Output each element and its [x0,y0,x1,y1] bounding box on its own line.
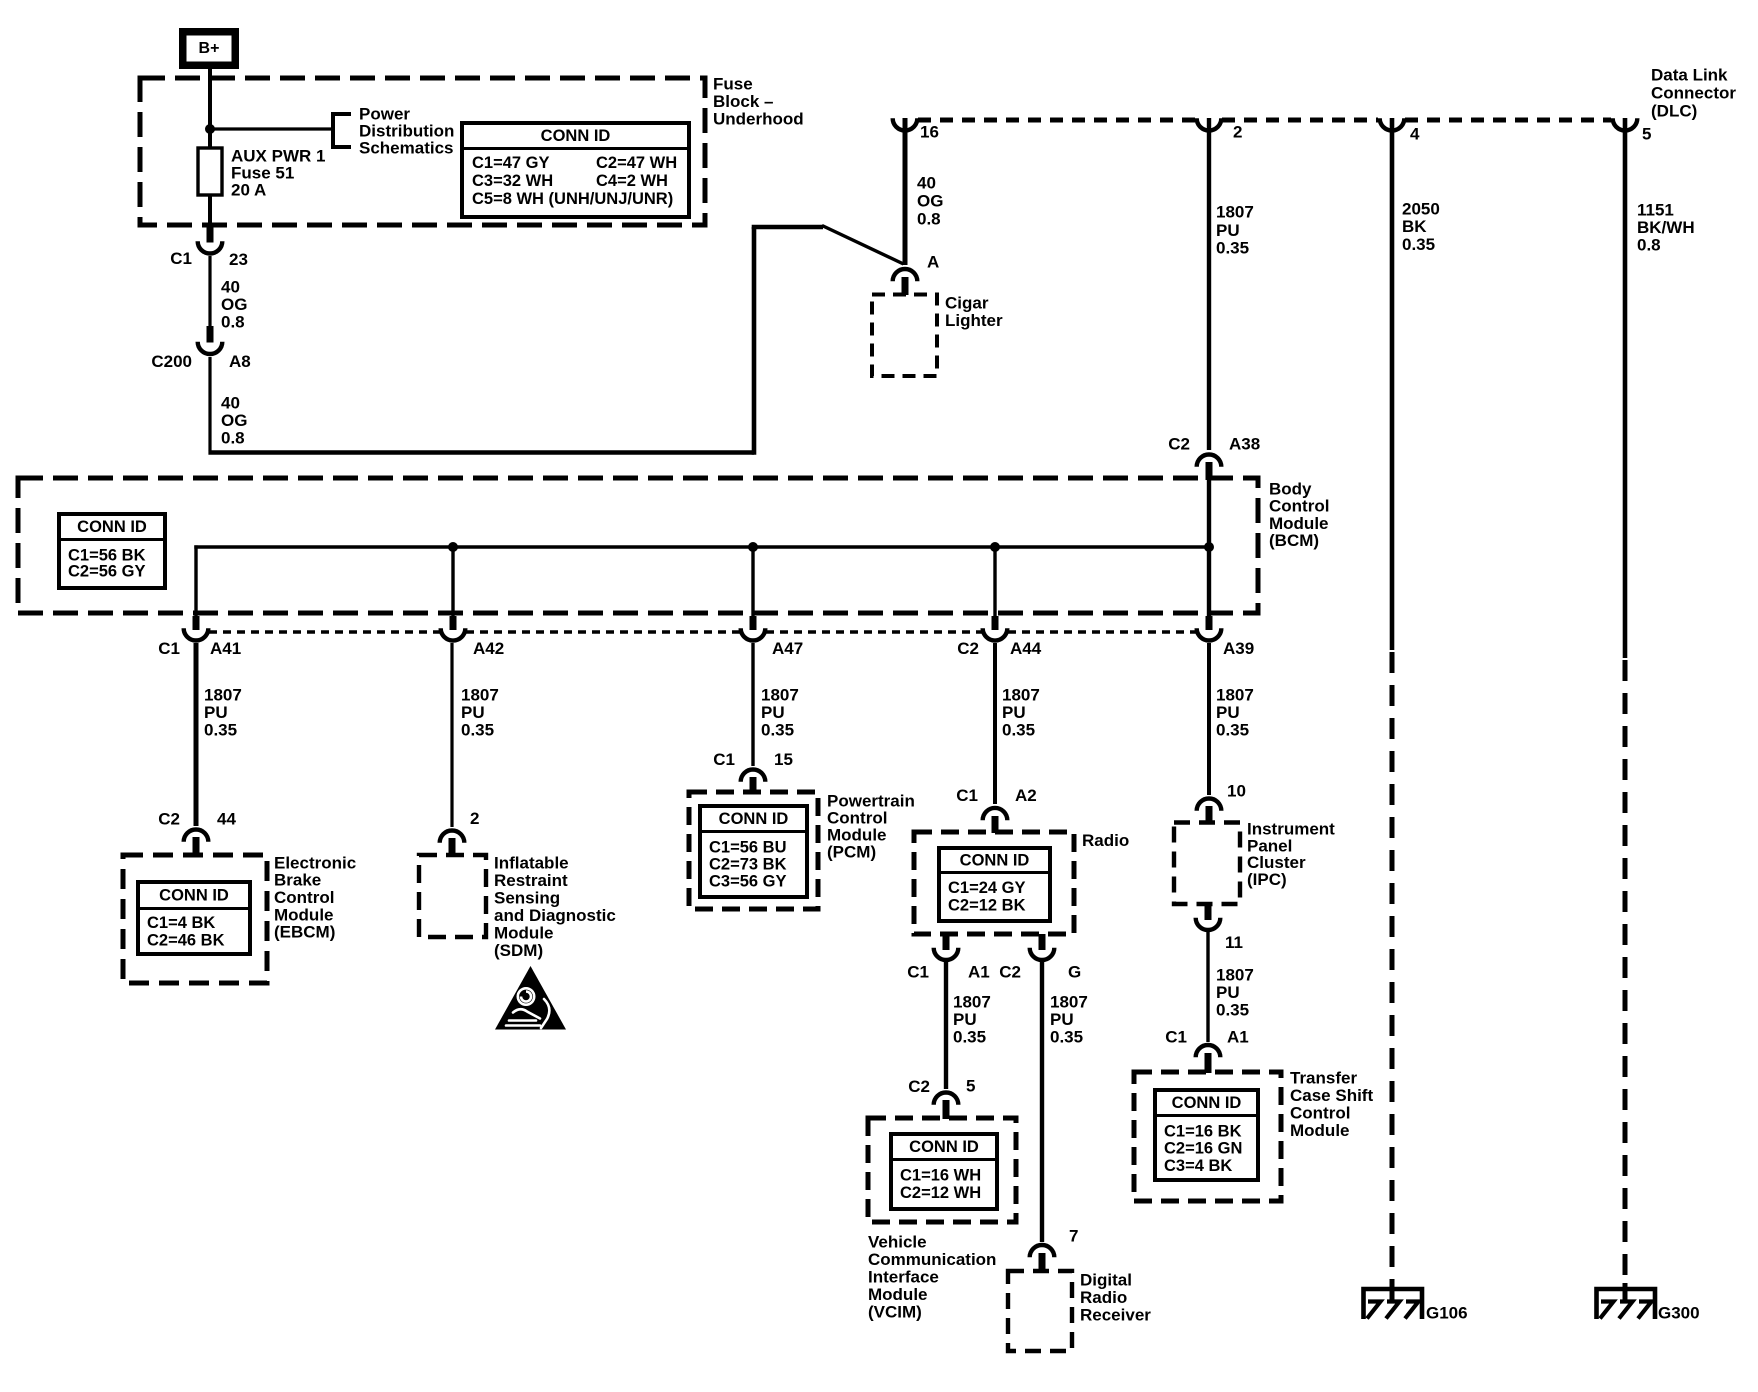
fuse AUX PWR 1 Fuse 51 20A [198,148,222,195]
svg-text:Cigar: Cigar [945,294,989,313]
svg-text:C4=2 WH: C4=2 WH [596,172,668,190]
wire radio A1 to VCIM [944,962,948,1089]
conn id table VCIM [891,1134,997,1209]
wire fuse to C1 [208,195,212,231]
svg-text:0.35: 0.35 [1050,1028,1083,1047]
conn id table EBCM [138,882,250,954]
svg-text:G106: G106 [1426,1304,1468,1323]
svg-text:Case Shift: Case Shift [1290,1086,1373,1105]
svg-text:C5=8 WH (UNH/UNJ/UNR): C5=8 WH (UNH/UNJ/UNR) [472,190,673,208]
svg-text:A47: A47 [772,639,803,658]
svg-text:(VCIM): (VCIM) [868,1303,922,1322]
junction dot A39 [1204,542,1214,552]
svg-text:A38: A38 [1229,435,1260,454]
svg-text:2: 2 [1233,123,1242,142]
svg-text:PU: PU [761,703,785,722]
connector C1 pin 23 [207,226,214,243]
wire C1 to C200 [208,256,211,330]
svg-text:C1=16 WH: C1=16 WH [900,1167,981,1185]
svg-text:PU: PU [1050,1010,1074,1029]
svg-text:0.35: 0.35 [1216,239,1249,258]
wire C200 down [208,357,211,451]
connector Radio C1 pin A2 [983,808,1008,820]
svg-text:A8: A8 [229,352,251,371]
power distribution reference bracket [331,112,335,149]
power symbol B+ [179,28,239,69]
conn id table BCM [59,514,165,588]
svg-text:Vehicle: Vehicle [868,1233,927,1252]
svg-text:A39: A39 [1223,639,1254,658]
svg-text:Connector: Connector [1651,84,1736,103]
svg-text:7: 7 [1069,1227,1078,1246]
svg-text:A1: A1 [1227,1028,1249,1047]
svg-text:Interface: Interface [868,1268,939,1287]
wire DLC2 to BCM A38 [1207,118,1211,450]
svg-text:0.8: 0.8 [221,313,245,332]
svg-text:PU: PU [1216,221,1240,240]
connector TCSCM C1 pin A1 [1196,1045,1221,1057]
svg-text:Schematics: Schematics [359,139,454,158]
svg-text:Control: Control [1290,1104,1350,1123]
connector DLC pin 16 [893,118,918,130]
inflatable restraint SDM dashed box [419,855,486,937]
svg-text:G: G [1068,963,1081,982]
svg-text:C2: C2 [999,963,1021,982]
SRS warning triangle [495,966,566,1030]
svg-text:0.35: 0.35 [1002,721,1035,740]
svg-text:1807: 1807 [461,686,499,705]
ground G300 [1623,1283,1628,1301]
svg-text:BK: BK [1402,217,1427,236]
svg-text:1807: 1807 [953,993,991,1012]
svg-text:(PCM): (PCM) [827,843,876,862]
BCM connector dotted line [209,630,441,634]
svg-text:A41: A41 [210,639,241,658]
svg-text:B+: B+ [199,40,220,57]
node junction dot [205,124,215,134]
svg-text:Module: Module [1290,1121,1350,1140]
svg-text:C1=16 BK: C1=16 BK [1164,1123,1242,1141]
body control module dashed box [18,478,1258,613]
svg-text:Control: Control [274,888,334,907]
ground G106 [1390,1283,1395,1301]
svg-text:C1=4 BK: C1=4 BK [147,914,215,932]
svg-text:C1: C1 [170,249,192,268]
svg-text:CONN ID: CONN ID [909,1138,979,1156]
svg-text:1807: 1807 [1050,993,1088,1012]
connector DLC pin 5 [1613,118,1638,130]
wire IPC to TCSCM [1206,932,1209,1042]
connector IPC pin 10 [1197,798,1222,810]
svg-text:Inflatable: Inflatable [494,854,569,873]
svg-text:C2: C2 [158,810,180,829]
svg-text:1807: 1807 [761,686,799,705]
svg-text:0.35: 0.35 [1216,721,1249,740]
svg-text:Control: Control [1269,497,1329,516]
svg-text:0.35: 0.35 [204,721,237,740]
svg-text:0.35: 0.35 [761,721,794,740]
svg-text:C2=16 GN: C2=16 GN [1164,1140,1242,1158]
svg-text:C3=32 WH: C3=32 WH [472,172,553,190]
connector BCM pin A39 [1206,616,1213,630]
wire A47 to PCM [751,643,754,766]
svg-text:Radio: Radio [1082,831,1129,850]
svg-text:C2=73 BK: C2=73 BK [709,856,787,874]
DLC dashed bus [918,118,1196,123]
svg-text:Transfer: Transfer [1290,1069,1357,1088]
connector cigar lighter pin A [893,269,918,281]
connector SDM pin 2 [440,831,465,843]
svg-text:20 A: 20 A [231,181,266,200]
svg-text:0.35: 0.35 [1402,235,1435,254]
conn id table fuse block [462,123,689,217]
connector DLC pin 4 [1380,118,1405,130]
svg-text:1807: 1807 [1002,686,1040,705]
svg-text:4: 4 [1410,125,1420,144]
svg-text:(DLC): (DLC) [1651,102,1697,121]
svg-text:2: 2 [470,809,479,828]
wire DLC5 solid [1623,118,1628,658]
wire B+ to fuse [208,69,212,149]
svg-text:Receiver: Receiver [1080,1306,1151,1325]
wire A39 to IPC [1207,643,1211,795]
svg-text:PU: PU [1002,703,1026,722]
svg-text:Block –: Block – [713,92,773,111]
svg-text:(BCM): (BCM) [1269,531,1319,550]
svg-text:OG: OG [221,295,247,314]
connector C200 pin A8 [207,326,214,343]
svg-text:0.35: 0.35 [953,1028,986,1047]
svg-text:BK/WH: BK/WH [1637,218,1695,237]
electronic brake control module dashed box [123,855,267,983]
svg-text:A2: A2 [1015,786,1037,805]
svg-text:PU: PU [1216,983,1240,1002]
svg-text:1807: 1807 [204,686,242,705]
svg-text:Sensing: Sensing [494,889,560,908]
svg-text:C3=4 BK: C3=4 BK [1164,1157,1232,1175]
svg-text:23: 23 [229,250,248,269]
svg-text:5: 5 [966,1077,975,1096]
wire DLC16 to cigar lighter [903,118,908,265]
radio dashed box [914,832,1074,934]
junction dot A44 [990,542,1000,552]
wire BCM to A44 [993,547,996,630]
wire DLC4 dashed to G106 [1390,652,1395,1287]
connector BCM pin A44 [992,616,999,630]
svg-text:C1: C1 [956,786,978,805]
connector EBCM C2 pin 44 [184,830,209,842]
fuse block underhood dashed box [140,78,705,225]
svg-text:and Diagnostic: and Diagnostic [494,906,616,925]
wire radio G to DRR [1040,962,1044,1242]
svg-text:Radio: Radio [1080,1288,1127,1307]
svg-text:Module: Module [494,924,554,943]
svg-text:PU: PU [461,703,485,722]
svg-text:1807: 1807 [1216,203,1254,222]
svg-text:16: 16 [920,123,939,142]
svg-text:Brake: Brake [274,871,321,890]
svg-text:C2: C2 [1168,435,1190,454]
svg-text:2050: 2050 [1402,200,1440,219]
wire C200 to cigar lighter run [208,450,754,455]
conn id table PCM [700,806,807,897]
svg-text:0.8: 0.8 [917,210,941,229]
connector Radio C1 pin A1 exit [943,934,950,950]
svg-text:(SDM): (SDM) [494,941,543,960]
svg-text:PU: PU [204,703,228,722]
wire BCM to A47 [751,547,754,630]
svg-text:CONN ID: CONN ID [960,851,1030,869]
svg-text:C2=46 BK: C2=46 BK [147,932,225,950]
svg-text:5: 5 [1642,125,1651,144]
svg-text:PU: PU [953,1010,977,1029]
svg-text:15: 15 [774,750,793,769]
svg-text:C2: C2 [957,639,979,658]
svg-text:PU: PU [1216,703,1240,722]
wire A42 to SDM [450,643,453,827]
svg-text:CONN ID: CONN ID [719,810,789,828]
svg-text:1807: 1807 [1216,686,1254,705]
svg-text:C1: C1 [713,750,735,769]
connector DLC pin 2 [1197,118,1222,130]
digital radio receiver dashed box [1008,1271,1072,1351]
svg-text:C2=47 WH: C2=47 WH [596,154,677,172]
svg-text:C200: C200 [151,352,192,371]
svg-text:CONN ID: CONN ID [541,127,611,145]
BCM internal bus wire [194,545,197,630]
svg-text:11: 11 [1225,933,1243,952]
svg-text:A1: A1 [968,963,990,982]
svg-text:C3=56 GY: C3=56 GY [709,873,787,891]
svg-text:Fuse: Fuse [713,75,753,94]
svg-text:C2=56 GY: C2=56 GY [68,563,146,581]
connector BCM pin A47 [750,616,757,630]
wire A44 to Radio [993,643,997,804]
wire DLC4 solid [1390,118,1395,650]
svg-text:0.35: 0.35 [461,721,494,740]
svg-text:1807: 1807 [1216,966,1254,985]
svg-text:(IPC): (IPC) [1247,870,1287,889]
svg-text:CONN ID: CONN ID [77,518,147,536]
svg-text:C1: C1 [907,963,929,982]
svg-text:40: 40 [917,174,936,193]
svg-text:1151: 1151 [1637,201,1674,220]
svg-text:44: 44 [217,810,236,829]
svg-text:C1=56 BU: C1=56 BU [709,839,787,857]
svg-text:0.35: 0.35 [1216,1001,1249,1020]
svg-text:40: 40 [221,278,240,297]
powertrain control module dashed box [689,792,818,909]
svg-text:Lighter: Lighter [945,311,1003,330]
svg-text:Data Link: Data Link [1651,66,1728,85]
connector BCM C2 pin A38 [1197,454,1222,466]
svg-text:A44: A44 [1010,639,1042,658]
svg-text:0.8: 0.8 [1637,236,1661,255]
conn id table Radio [939,848,1050,921]
wire A41 to EBCM [194,643,199,826]
svg-text:Underhood: Underhood [713,110,804,129]
connector PCM C1 pin 15 [741,770,766,782]
svg-text:Digital: Digital [1080,1271,1132,1290]
svg-text:G300: G300 [1658,1304,1700,1323]
svg-text:(EBCM): (EBCM) [274,923,335,942]
connector BCM pin A42 [450,616,457,630]
svg-text:Restraint: Restraint [494,871,568,890]
svg-text:C1: C1 [158,639,180,658]
svg-text:C2=12 WH: C2=12 WH [900,1184,981,1202]
instrument panel cluster dashed box [1174,823,1240,905]
wire junction to power distribution bracket [210,127,333,130]
wire BCM to A42 [451,547,454,630]
svg-text:C2: C2 [908,1077,930,1096]
connector BCM pin A41 [193,616,200,630]
svg-text:C1: C1 [1165,1028,1187,1047]
connector DRR pin 7 [1030,1245,1055,1257]
svg-text:40: 40 [221,394,240,413]
connector IPC pin 11 exit [1205,904,1212,920]
conn id table TCSCM [1155,1090,1258,1180]
cigar lighter box [872,295,937,377]
connector Radio C2 pin G exit [1039,934,1046,950]
connector VCIM C2 pin 5 [934,1093,959,1105]
transfer case shift control module dashed box [1134,1072,1281,1201]
wire DLC5 dashed to G300 [1623,660,1628,1287]
svg-text:C1=24 GY: C1=24 GY [948,879,1026,897]
svg-text:C1=47 GY: C1=47 GY [472,154,550,172]
svg-text:Module: Module [868,1285,928,1304]
svg-text:0.8: 0.8 [221,429,245,448]
svg-text:10: 10 [1227,782,1246,801]
svg-text:OG: OG [917,192,943,211]
svg-text:CONN ID: CONN ID [1172,1094,1242,1112]
vehicle communication interface module dashed box [868,1118,1016,1222]
svg-text:OG: OG [221,411,247,430]
svg-text:A42: A42 [473,639,504,658]
svg-text:CONN ID: CONN ID [159,886,229,904]
svg-text:Communication: Communication [868,1250,996,1269]
junction dot A42 [448,542,458,552]
svg-text:A: A [927,253,939,272]
junction dot A47 [748,542,758,552]
svg-text:C2=12 BK: C2=12 BK [948,897,1026,915]
